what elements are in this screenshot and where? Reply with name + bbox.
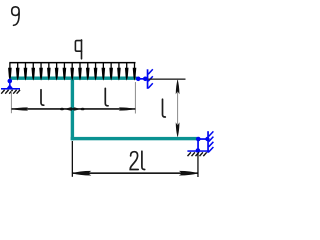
top-right link support	[136, 69, 153, 89]
arrows meeting at column	[60, 108, 64, 111]
arrow up tip	[176, 80, 180, 95]
dimension line under beam	[12, 108, 136, 110]
distributed load line	[9, 62, 135, 64]
arrow left tip	[12, 107, 29, 110]
arrow right tip	[119, 107, 136, 110]
problem number 9	[12, 7, 19, 26]
height label l	[163, 99, 166, 117]
beam top member	[9, 77, 137, 80]
vertical dimension line right	[177, 80, 178, 137]
arrow left tip bottom	[72, 171, 91, 176]
distributed load arrows	[8, 63, 12, 81]
bottom extension line right	[197, 153, 198, 177]
column member	[71, 78, 74, 140]
dimension extension line right of beam	[135, 82, 136, 114]
wall reference line top right	[148, 79, 185, 80]
bottom-right pin support (two links)	[187, 131, 213, 156]
dimension extension line left	[11, 91, 12, 113]
span label l (right)	[105, 88, 108, 106]
left pin support	[1, 79, 20, 94]
bottom label 2l	[130, 151, 145, 169]
bottom dimension line 2l	[72, 172, 198, 174]
load label q	[75, 40, 81, 59]
beam bottom member	[71, 137, 198, 140]
arrow right tip bottom	[179, 171, 198, 176]
arrow down tip	[176, 122, 180, 137]
span label l (left)	[41, 90, 44, 106]
bottom extension line left	[72, 141, 73, 177]
